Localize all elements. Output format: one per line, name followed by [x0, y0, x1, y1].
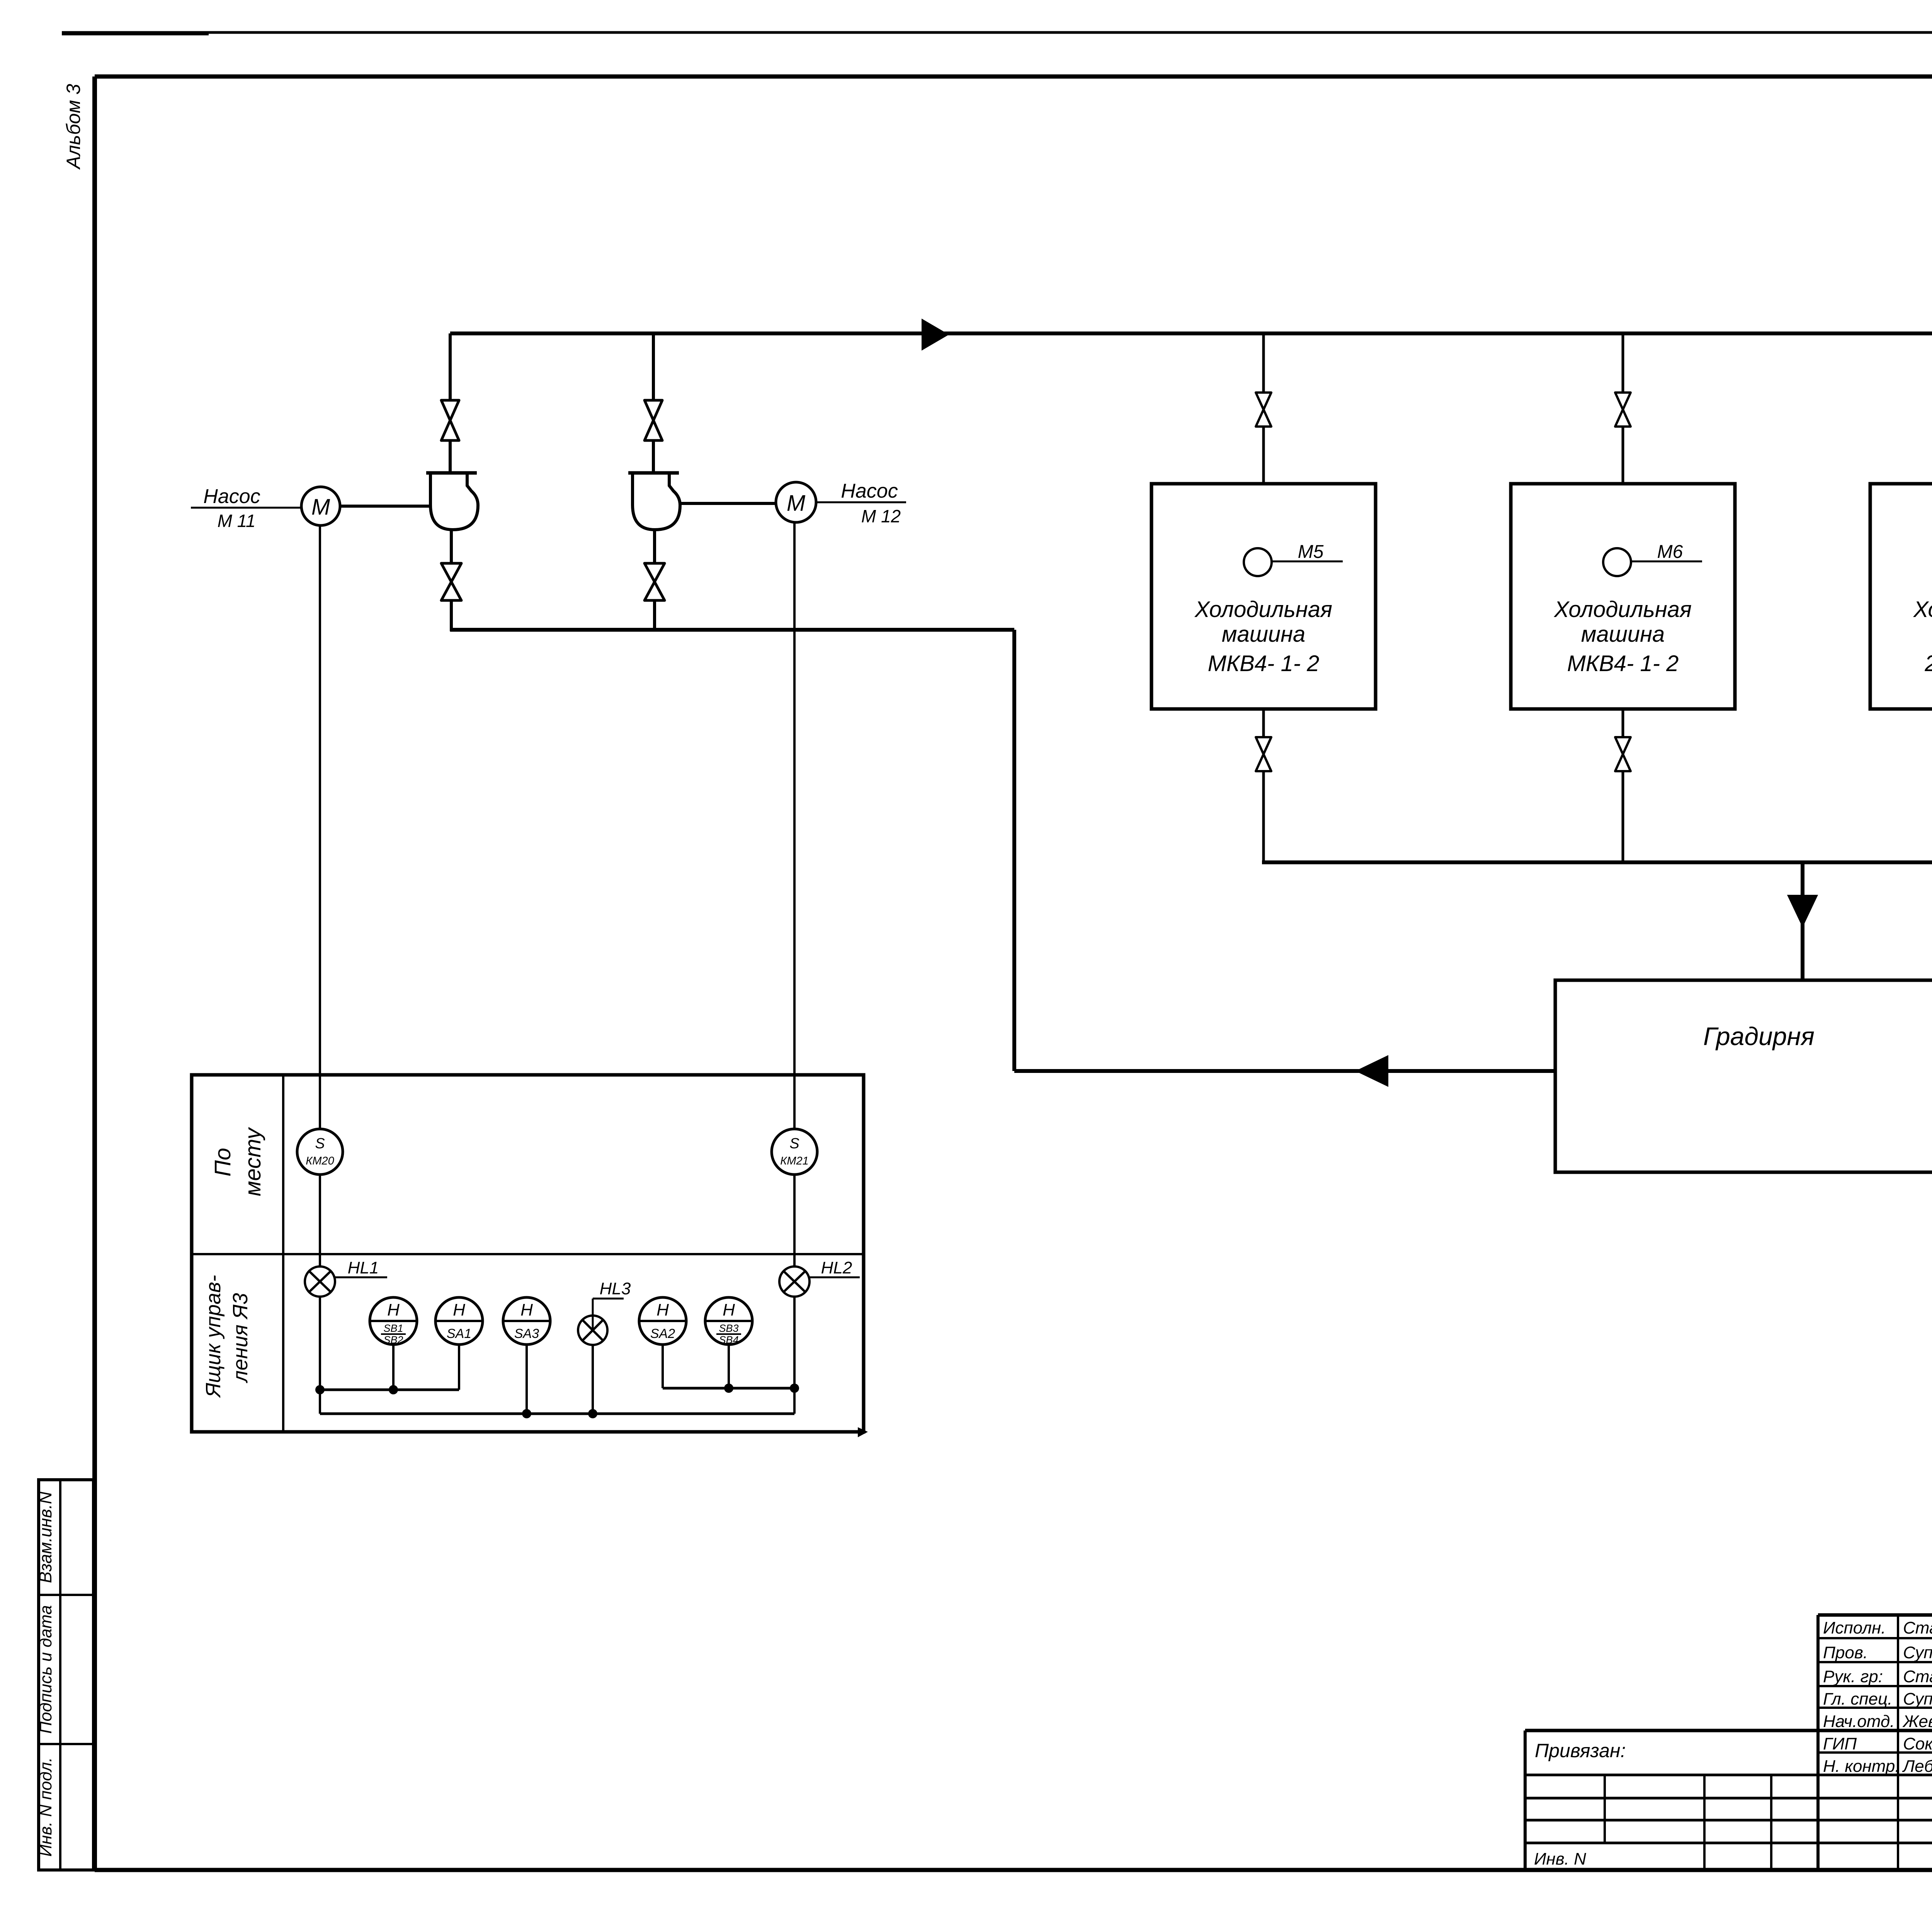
svg-text:Насос: Насос [203, 485, 260, 508]
svg-text:Соколовский: Соколовский [1903, 1734, 1932, 1753]
label Насос М11 [191, 485, 301, 531]
button indicator H SB1/SB2 [370, 1297, 417, 1346]
svg-text:Градирня: Градирня [1703, 1022, 1815, 1051]
button indicator H SB3/SB4 [705, 1297, 752, 1346]
svg-text:Холодильная: Холодильная [1553, 597, 1692, 622]
signature table row: ГИП Соколовский [1823, 1734, 1932, 1753]
svg-text:Насос: Насос [841, 480, 898, 502]
signature table row lines [1818, 1638, 1932, 1753]
svg-text:Супрунова: Супрунова [1903, 1690, 1932, 1708]
label HL1 [335, 1258, 387, 1277]
pump P2 riser wire (header to valve) [652, 333, 655, 402]
svg-text:Жевнеров: Жевнеров [1902, 1712, 1932, 1731]
valve on pump P1 suction [441, 563, 461, 600]
svg-text:Нач.отд.: Нач.отд. [1823, 1712, 1895, 1731]
svg-text:Н: Н [656, 1300, 669, 1319]
lamp HL3 [578, 1316, 607, 1345]
svg-text:SA2: SA2 [650, 1326, 675, 1341]
wire KM21 to HL2 [793, 1175, 796, 1266]
svg-text:SB2: SB2 [383, 1334, 403, 1346]
svg-text:Инв. N: Инв. N [1534, 1850, 1586, 1868]
junction dot SB1-SB2/bus [389, 1385, 398, 1394]
wire KM20 to HL1 [319, 1175, 321, 1266]
label Насос М12 [816, 480, 906, 526]
svg-text:М6: М6 [1657, 542, 1683, 562]
wire HL1 down [319, 1297, 321, 1414]
junction dot HL1/bus [315, 1385, 325, 1394]
bus wire upper-left [320, 1389, 459, 1391]
machine М6 top branch wire [1622, 333, 1624, 393]
svg-text:КМ21: КМ21 [780, 1155, 809, 1167]
pump P1 symbol [426, 473, 478, 530]
machine М5 bottom wire [1262, 709, 1265, 737]
left margin cells frame [39, 1480, 94, 1870]
wire motor M1 to pump P1 [340, 505, 430, 508]
svg-text:Старицына: Старицына [1903, 1618, 1932, 1637]
svg-text:месту: месту [240, 1127, 265, 1196]
svg-text:SB3: SB3 [719, 1323, 738, 1334]
wire valve to machine М6 [1622, 427, 1624, 484]
wire valve to machine М5 [1262, 427, 1265, 484]
wire valve to suction header [653, 600, 656, 631]
wire SA2 down [662, 1345, 664, 1388]
wire SA3 down [526, 1345, 528, 1414]
control box outline [192, 1075, 864, 1432]
svg-text:Подпись и дата: Подпись и дата [36, 1605, 55, 1734]
svg-text:Н: Н [723, 1300, 735, 1319]
svg-text:Старицына: Старицына [1903, 1667, 1932, 1686]
binding table: Привязан [1535, 1740, 1626, 1761]
svg-text:М: М [311, 495, 330, 520]
signature table row: Исполн. Старицына [1823, 1613, 1932, 1637]
svg-text:ления Я3: ления Я3 [229, 1293, 252, 1384]
svg-text:КМ20: КМ20 [306, 1155, 334, 1167]
svg-text:Рук. гр:: Рук. гр: [1823, 1667, 1883, 1686]
flow arrow down to cooling tower [1788, 896, 1817, 926]
wire valve to return header (М5) [1262, 771, 1265, 862]
wire valve to suction header [450, 600, 453, 631]
inventory row: Инв. N [1534, 1850, 1586, 1868]
svg-text:SA1: SA1 [447, 1326, 471, 1341]
svg-text:Лебская: Лебская [1902, 1757, 1932, 1776]
junction dot SB3-SB4/bus [724, 1384, 733, 1393]
pump suction header pipe [450, 628, 1014, 632]
svg-text:ГИП: ГИП [1823, 1734, 1857, 1753]
label HL3 [593, 1279, 631, 1329]
svg-text:HL3: HL3 [600, 1279, 631, 1298]
album label: Альбом 3 [63, 84, 84, 170]
svg-text:S: S [315, 1136, 325, 1152]
svg-text:М5: М5 [1298, 542, 1324, 562]
control wire motor M1 down [319, 525, 321, 1129]
junction dot HL3/bus [588, 1409, 597, 1418]
svg-text:SB4: SB4 [719, 1334, 738, 1346]
lamp HL2 [779, 1266, 810, 1297]
pump P2 symbol [628, 473, 680, 530]
svg-text:SA3: SA3 [514, 1326, 539, 1341]
wire SA1 down [458, 1345, 460, 1390]
signature table row: Н. контр. Лебская [1823, 1757, 1932, 1776]
svg-text:S: S [789, 1136, 799, 1152]
svg-text:Пров.: Пров. [1823, 1643, 1868, 1662]
valve on pump P2 suction [645, 563, 665, 600]
rotated label: Ящик управ- ления Я3 [202, 1275, 252, 1398]
control box row divider [192, 1253, 864, 1255]
wire valve to pump P2 [652, 440, 655, 474]
svg-text:Гл. спец.: Гл. спец. [1823, 1690, 1892, 1708]
svg-text:Н: Н [453, 1300, 465, 1319]
svg-text:Супрунова: Супрунова [1903, 1643, 1932, 1662]
svg-text:МКВ4- 1- 2: МКВ4- 1- 2 [1567, 651, 1679, 676]
signature table row: Рук. гр: Старицына [1823, 1661, 1932, 1686]
svg-text:HL2: HL2 [821, 1258, 852, 1277]
svg-text:Ящик управ-: Ящик управ- [202, 1275, 225, 1398]
label HL2 [810, 1258, 860, 1277]
machines return header pipe [1262, 860, 1932, 864]
valve on М5 outlet [1256, 737, 1271, 771]
wire HL2 down [793, 1297, 796, 1414]
svg-text:Инв. N подл.: Инв. N подл. [36, 1757, 55, 1856]
svg-text:Н: Н [520, 1300, 533, 1319]
svg-text:2ХМ- ФУ40: 2ХМ- ФУ40 [1924, 651, 1932, 676]
lamp HL1 [305, 1266, 335, 1297]
svg-text:Холодильная: Холодильная [1913, 597, 1932, 622]
pump P1 riser wire (header to valve) [449, 333, 452, 402]
wire valve to pump P1 [449, 440, 452, 474]
signature table row: Нач.отд. Жевнеров [1823, 1712, 1932, 1731]
switch indicator H SA2 [639, 1297, 686, 1345]
machine М5 top branch wire [1262, 333, 1265, 393]
return riser pipe down [1012, 630, 1016, 1071]
flow arrow left on return pipe [1357, 1056, 1388, 1086]
svg-text:Н: Н [387, 1300, 400, 1319]
switch indicator H SA3 [503, 1297, 550, 1345]
control wire motor M2 down [793, 522, 796, 1129]
rotated label: Инв. N подл. [36, 1757, 55, 1856]
wire pump P2 to motor M2 [680, 502, 776, 505]
rotated label: Взам.инв.N [36, 1491, 55, 1583]
control box corner blob [858, 1427, 868, 1437]
svg-text:М 11: М 11 [218, 511, 256, 531]
bus wire upper-right [663, 1387, 794, 1390]
svg-text:HL1: HL1 [348, 1258, 379, 1277]
wire pump P1 to lower valve [450, 530, 453, 564]
svg-text:МКВ4- 1- 2: МКВ4- 1- 2 [1208, 651, 1320, 676]
return pipe from cooling tower [1014, 1069, 1555, 1073]
title block horizontal lines [1525, 1615, 1932, 1843]
svg-text:машина: машина [1581, 622, 1665, 647]
svg-text:Альбом 3: Альбом 3 [63, 84, 84, 170]
svg-text:М 12: М 12 [861, 506, 901, 526]
junction dot SA3/bus [522, 1409, 531, 1418]
machine М6 bottom wire [1622, 709, 1624, 737]
switch circle S KM20 [297, 1129, 343, 1175]
cooling tower feed pipe down [1801, 862, 1804, 980]
control box label column divider [282, 1075, 284, 1432]
signature table row: Гл. спец. Супрунова [1823, 1689, 1932, 1708]
supply header pipe (top) [450, 331, 1932, 335]
svg-text:Исполн.: Исполн. [1823, 1618, 1886, 1637]
motor circle M1 [301, 487, 340, 525]
switch indicator H SA1 [435, 1297, 483, 1345]
svg-text:Взам.инв.N: Взам.инв.N [36, 1491, 55, 1583]
valve on М6 outlet [1615, 737, 1631, 771]
switch circle S KM21 [772, 1129, 817, 1175]
junction dot HL2/bus [790, 1384, 799, 1393]
rotated label: Подпись и дата [36, 1605, 55, 1734]
cooling tower box: Градирня [1555, 980, 1932, 1172]
svg-text:По: По [210, 1148, 235, 1176]
svg-text:Н. контр.: Н. контр. [1823, 1757, 1900, 1776]
machine box М6: Холодильная машина МКВ4- 1- 2 [1511, 484, 1735, 709]
svg-text:Холодильная: Холодильная [1194, 597, 1332, 622]
svg-text:М: М [787, 491, 806, 516]
valve on pump P1 discharge [441, 400, 459, 440]
wire valve to return header (М6) [1622, 771, 1624, 862]
wire pump P2 to lower valve [653, 530, 656, 564]
svg-text:Привязан:: Привязан: [1535, 1740, 1626, 1761]
bus wire lower [320, 1413, 794, 1415]
machine box М7: Холодильная машина 2ХМ- ФУ40 [1870, 484, 1932, 709]
sheet top edge line [62, 32, 1932, 34]
flow arrow right on supply header [922, 320, 947, 349]
svg-text:машина: машина [1222, 622, 1306, 647]
title block vertical lines [1525, 1615, 1932, 1870]
valve on pump P2 discharge [645, 400, 662, 440]
valve on М5 inlet [1256, 393, 1271, 427]
rotated label: По месту [210, 1127, 265, 1196]
signature table row: Пров. Супрунова [1823, 1643, 1932, 1662]
svg-text:SB1: SB1 [383, 1323, 403, 1334]
valve on М6 inlet [1615, 393, 1631, 427]
wire HL3 down [592, 1345, 594, 1414]
wire SB3/SB4 down [728, 1345, 730, 1388]
machine box М5: Холодильная машина МКВ4- 1- 2 [1151, 484, 1376, 709]
wire SB1/SB2 down [392, 1345, 395, 1390]
motor circle M2 [776, 482, 816, 522]
